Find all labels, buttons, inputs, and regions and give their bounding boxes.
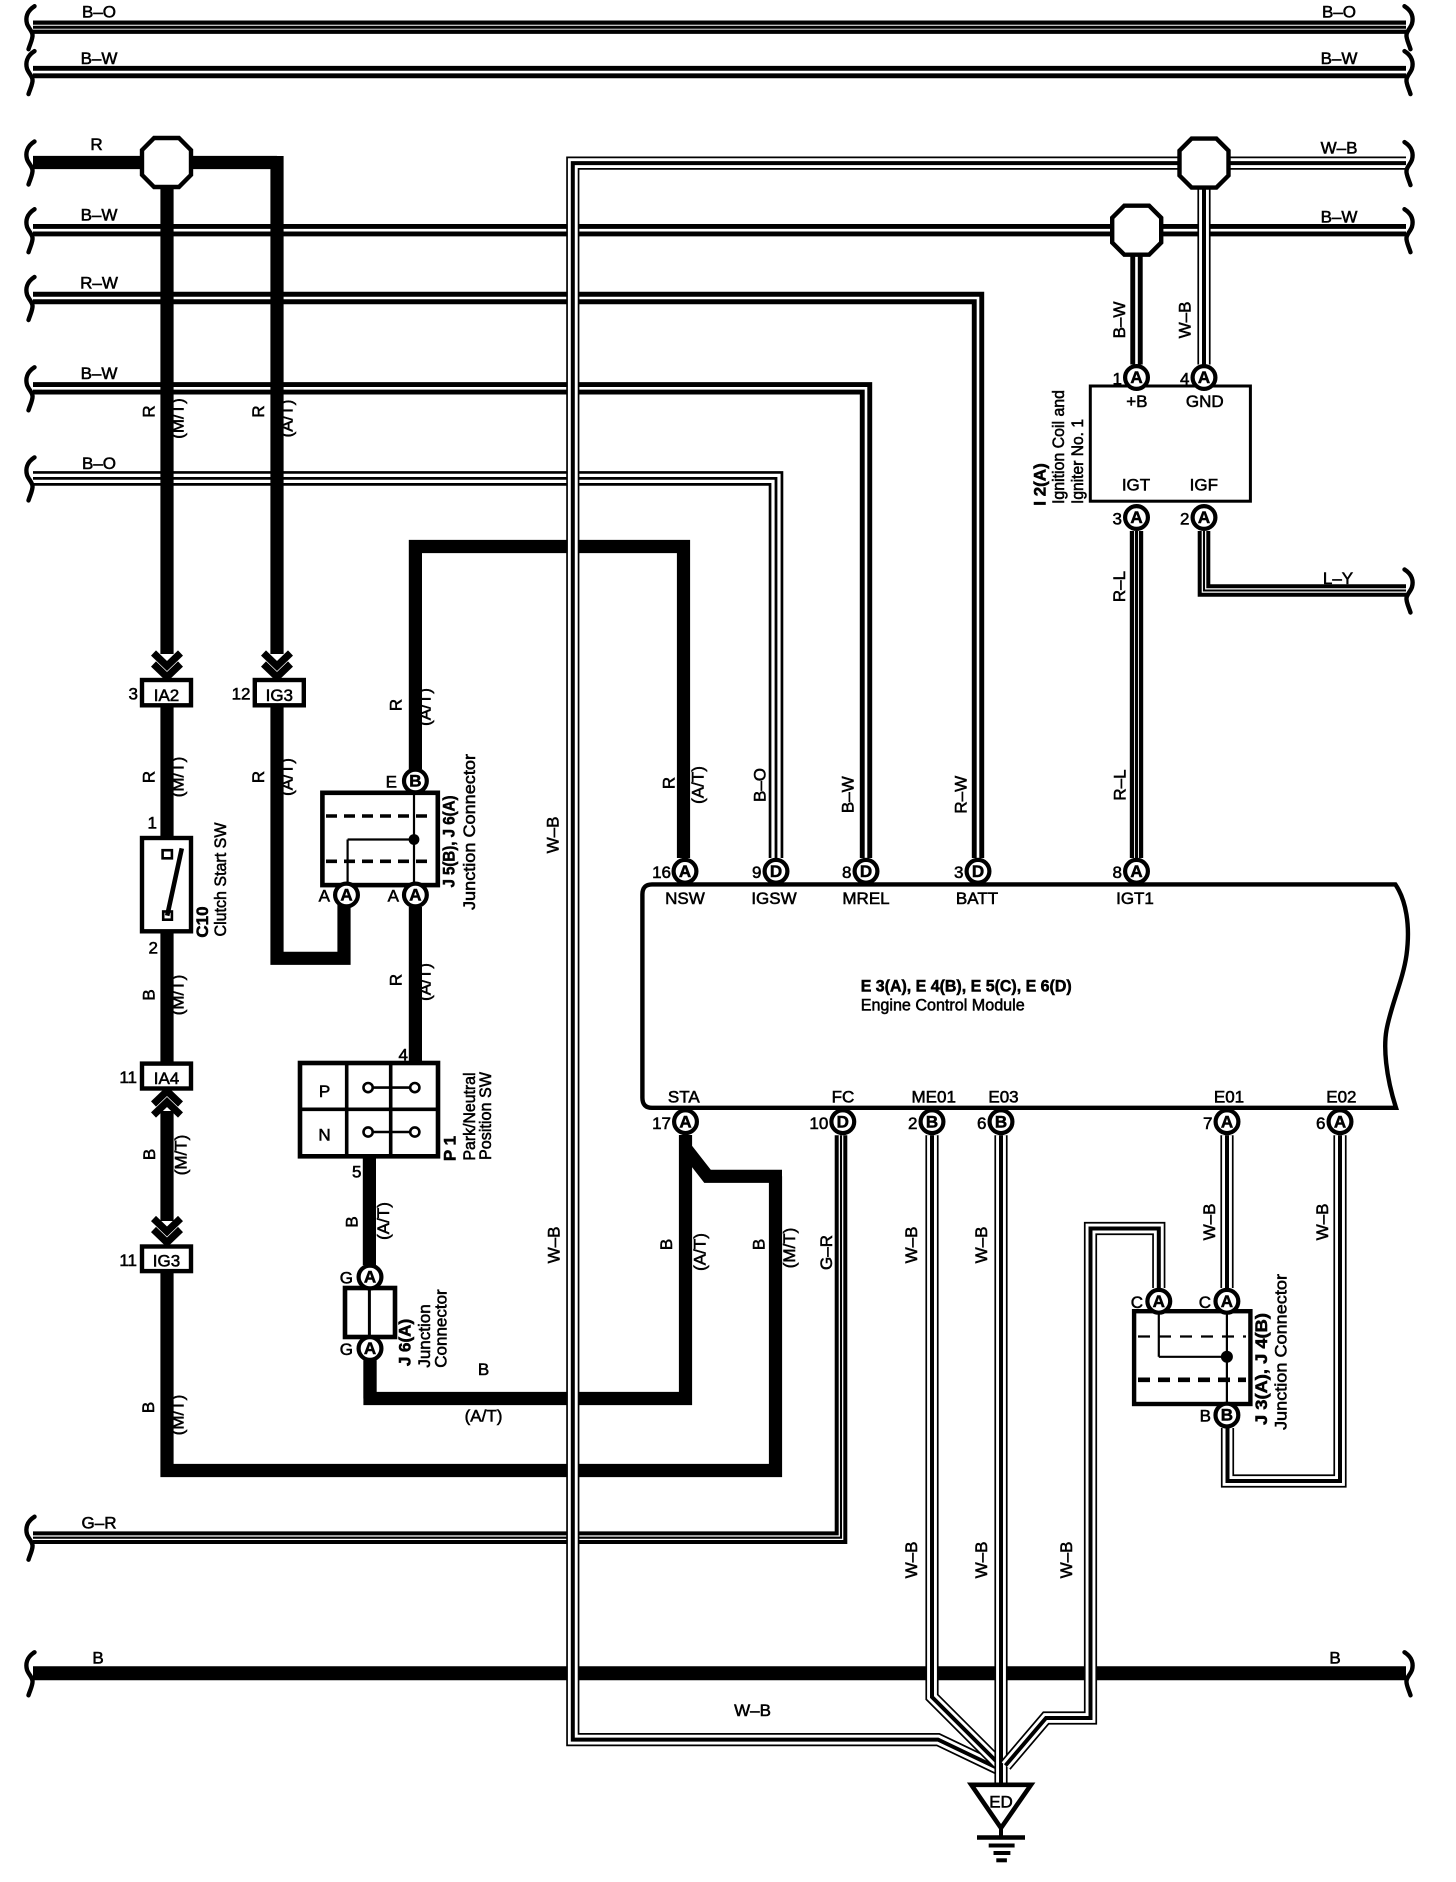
connector arrows into IG3 (lower, pointing down) — [154, 1219, 181, 1243]
wire R-L coil IGT pin 3 to ECM IGT1 — [1130, 531, 1143, 858]
svg-text:P: P — [319, 1082, 330, 1101]
svg-text:(M/T): (M/T) — [168, 975, 187, 1016]
svg-text:W–B: W–B — [902, 1227, 921, 1264]
svg-text:(A/T): (A/T) — [277, 758, 296, 796]
pin G(A) lower of J6 — [359, 1337, 382, 1360]
svg-text:A: A — [1221, 1292, 1233, 1311]
bus B-W (4th) with branch stub — [33, 224, 1406, 236]
svg-text:IA2: IA2 — [154, 686, 180, 705]
svg-text:A: A — [364, 1268, 376, 1287]
svg-text:B–O: B–O — [1322, 3, 1356, 22]
svg-text:(A/T): (A/T) — [415, 963, 434, 1001]
pin A(A) left of J6 — [335, 884, 358, 907]
svg-text:3: 3 — [954, 863, 963, 882]
node wire-continues brace left 8 — [26, 1517, 34, 1560]
svg-text:6: 6 — [977, 1114, 986, 1133]
node wire-continues brace right 5 — [1405, 570, 1413, 613]
svg-text:G–R: G–R — [817, 1235, 836, 1270]
wire B (A/T) J6 lower pin down — [363, 1361, 376, 1399]
bus B-O (top, to other page) — [33, 21, 1406, 34]
svg-text:4: 4 — [1180, 369, 1189, 388]
pin E(B) of J5 — [404, 770, 427, 793]
wire G-R bus to FC — [33, 1135, 841, 1538]
svg-text:A: A — [1334, 1112, 1346, 1131]
wire B (M/T) jog from STA — [687, 1150, 782, 1176]
svg-text:B: B — [409, 772, 421, 791]
node wire-continues brace left 3 — [26, 142, 34, 185]
svg-text:W–B: W–B — [972, 1227, 991, 1264]
bus B-W (2nd, to other page) — [33, 66, 1406, 78]
svg-text:(M/T): (M/T) — [171, 1135, 190, 1176]
junction connector J6(A) box — [345, 1288, 395, 1337]
wire R-W bus to BATT — [33, 298, 978, 858]
svg-text:W–B: W–B — [1321, 139, 1358, 158]
connector arrows into IA4 (pointing up) — [154, 1091, 181, 1115]
svg-text:B–W: B–W — [1110, 302, 1129, 339]
svg-text:R: R — [139, 405, 158, 417]
svg-text:B: B — [478, 1360, 489, 1379]
junction connector J5(B)/J6(A) box — [322, 793, 437, 885]
pin 10(D) FC — [831, 1110, 854, 1133]
svg-text:2: 2 — [1180, 509, 1189, 528]
pin C(A) left of J3 — [1147, 1290, 1170, 1313]
svg-text:(M/T): (M/T) — [168, 757, 187, 798]
svg-text:11: 11 — [119, 1068, 137, 1087]
svg-text:E03: E03 — [988, 1088, 1018, 1107]
pin 2(A) IGF — [1193, 506, 1216, 529]
svg-text:A: A — [1198, 368, 1210, 387]
bus B (ground, bottom) — [33, 1666, 1406, 1680]
svg-text:IG3: IG3 — [266, 686, 293, 705]
wire W-B E02 to J3/J4 pin B — [1228, 1135, 1341, 1481]
svg-text:A: A — [1130, 368, 1142, 387]
svg-text:B: B — [139, 989, 158, 1000]
svg-text:(A/T): (A/T) — [415, 688, 434, 726]
pin C(A) right of J3 — [1216, 1290, 1239, 1313]
svg-text:ED: ED — [989, 1793, 1013, 1812]
connector arrows into IA2 — [154, 653, 181, 677]
ground ED symbol — [971, 1785, 1031, 1861]
pin G(A) upper of J6 — [359, 1266, 382, 1289]
svg-text:3: 3 — [129, 685, 138, 704]
svg-text:8: 8 — [1113, 863, 1122, 882]
node wire-continues brace right 3 — [1405, 142, 1413, 185]
svg-text:W–B: W–B — [543, 817, 562, 854]
svg-text:R: R — [90, 135, 102, 154]
node wire-continues brace right 2 — [1405, 51, 1413, 94]
svg-text:R: R — [249, 771, 268, 783]
svg-text:GND: GND — [1186, 392, 1224, 411]
svg-text:Engine Control Module: Engine Control Module — [861, 995, 1025, 1014]
svg-text:Connector: Connector — [431, 1289, 450, 1368]
svg-text:(A/T): (A/T) — [374, 1202, 393, 1240]
node octagon splice on R feed — [142, 138, 191, 187]
svg-text:5: 5 — [352, 1163, 361, 1182]
wire R (A/T) J5 pin A to Park/Neutral pin 4 — [409, 907, 422, 1065]
svg-text:B: B — [342, 1216, 361, 1227]
pin 17(A) STA — [674, 1110, 697, 1133]
junction connector J3(A)/J4(B) box — [1134, 1311, 1250, 1404]
svg-text:E 3(A), E 4(B), E 5(C), E 6(D): E 3(A), E 4(B), E 5(C), E 6(D) — [861, 976, 1072, 995]
wire L-Y coil IGF pin 2 to right — [1204, 531, 1406, 591]
svg-text:R–W: R–W — [952, 776, 971, 814]
pin 3(D) BATT — [967, 860, 990, 883]
switch P1 Park/Neutral Position SW — [300, 1063, 438, 1156]
svg-text:J 6(A): J 6(A) — [395, 1319, 414, 1366]
svg-text:B–W: B–W — [1321, 49, 1358, 68]
svg-text:(A/T): (A/T) — [465, 1407, 503, 1426]
svg-text:B: B — [1221, 1406, 1233, 1425]
svg-text:Junction Connector: Junction Connector — [1271, 1274, 1290, 1430]
svg-text:IGF: IGF — [1190, 476, 1218, 495]
svg-text:B: B — [92, 1649, 103, 1668]
svg-text:B: B — [995, 1112, 1007, 1131]
svg-text:L–Y: L–Y — [1323, 569, 1353, 588]
svg-text:+B: +B — [1126, 392, 1147, 411]
node wire-continues brace right 4 — [1405, 209, 1413, 252]
svg-text:STA: STA — [668, 1088, 700, 1107]
svg-text:W–B: W–B — [544, 1227, 563, 1264]
svg-text:Junction Connector: Junction Connector — [460, 754, 479, 910]
svg-text:A: A — [409, 886, 421, 905]
svg-text:(A/T): (A/T) — [688, 766, 707, 804]
node wire-continues brace left 9 — [26, 1652, 34, 1695]
wire R (M/T) vertical segment 1 — [160, 156, 173, 654]
svg-text:A: A — [1221, 1112, 1233, 1131]
svg-text:B–W: B–W — [81, 206, 118, 225]
svg-text:(A/T): (A/T) — [277, 400, 296, 438]
connector IG3 pin 11 (lower) — [119, 1247, 191, 1272]
svg-text:16: 16 — [652, 863, 671, 882]
pin 6(A) E02 — [1329, 1110, 1352, 1133]
svg-text:E02: E02 — [1326, 1088, 1356, 1107]
svg-text:4: 4 — [399, 1045, 408, 1064]
connector arrows into IG3 (top) — [264, 653, 291, 677]
node wire-continues brace left 4 — [26, 209, 34, 252]
svg-text:2: 2 — [149, 938, 158, 957]
svg-text:W–B: W–B — [734, 1701, 771, 1720]
node wire-continues brace right 1 — [1405, 6, 1413, 49]
pin 8(A) IGT1 — [1125, 860, 1148, 883]
svg-text:W–B: W–B — [1313, 1204, 1332, 1241]
svg-text:B–W: B–W — [1321, 208, 1358, 227]
svg-text:J 5(B), J 6(A): J 5(B), J 6(A) — [439, 796, 458, 888]
svg-text:7: 7 — [1203, 1114, 1212, 1133]
svg-text:R: R — [139, 771, 158, 783]
svg-text:C: C — [1131, 1293, 1143, 1312]
svg-text:B: B — [926, 1112, 938, 1131]
pin 1(A) +B — [1125, 366, 1148, 389]
svg-text:IGT1: IGT1 — [1116, 889, 1154, 908]
svg-text:R: R — [249, 405, 268, 417]
svg-text:17: 17 — [652, 1114, 671, 1133]
svg-text:A: A — [340, 886, 352, 905]
svg-text:1: 1 — [148, 814, 157, 833]
svg-text:A: A — [1130, 508, 1142, 527]
svg-text:R: R — [659, 777, 678, 789]
svg-text:A: A — [1153, 1292, 1165, 1311]
svg-text:BATT: BATT — [956, 889, 998, 908]
node wire-continues brace left 2 — [26, 51, 34, 94]
svg-text:B: B — [1329, 1649, 1340, 1668]
wire W-B E01 to J3/J4 pin C — [1220, 1135, 1233, 1288]
node wire-continues brace left 6 — [26, 367, 34, 410]
svg-text:6: 6 — [1316, 1114, 1325, 1133]
svg-text:D: D — [860, 862, 872, 881]
svg-text:R: R — [386, 974, 405, 986]
svg-text:8: 8 — [842, 863, 851, 882]
svg-text:B: B — [749, 1239, 768, 1250]
wire R (A/T) below IG3 connector — [277, 705, 344, 958]
svg-text:B–O: B–O — [82, 454, 116, 473]
svg-text:3: 3 — [1113, 509, 1122, 528]
svg-text:A: A — [388, 887, 400, 906]
ECM E3(A)/E4(B)/E5(C)/E6(D) Engine Control Module box — [642, 884, 1408, 1107]
ignition coil and igniter I2(A) box — [1090, 386, 1250, 501]
svg-text:N: N — [318, 1126, 330, 1145]
svg-text:G–R: G–R — [82, 1514, 117, 1533]
svg-text:A: A — [1198, 508, 1210, 527]
pin 6(B) E03 — [990, 1110, 1013, 1133]
wire R (A/T) E(B) riser to NSW — [415, 547, 683, 859]
pin 2(B) ME01 — [921, 1110, 944, 1133]
svg-text:B: B — [140, 1149, 159, 1160]
node wire-continues brace right 6 — [1405, 1652, 1413, 1695]
svg-text:R–W: R–W — [80, 274, 118, 293]
pin 7(A) E01 — [1216, 1110, 1239, 1133]
node wire-continues brace left 7 — [26, 457, 34, 500]
svg-text:Igniter No. 1: Igniter No. 1 — [1068, 419, 1087, 504]
svg-text:10: 10 — [809, 1114, 828, 1133]
svg-text:A: A — [1130, 862, 1142, 881]
wire B (M/T) IA4-IG3 segment — [160, 1111, 173, 1221]
svg-text:B–O: B–O — [750, 768, 769, 802]
svg-text:IGT: IGT — [1122, 476, 1150, 495]
svg-text:J 3(A), J 4(B): J 3(A), J 4(B) — [1252, 1313, 1271, 1425]
svg-text:C10: C10 — [193, 906, 212, 937]
svg-text:(M/T): (M/T) — [168, 1395, 187, 1436]
svg-text:B: B — [1200, 1407, 1211, 1426]
svg-text:NSW: NSW — [665, 889, 705, 908]
svg-text:Clutch Start SW: Clutch Start SW — [211, 823, 230, 937]
svg-text:W–B: W–B — [1057, 1542, 1076, 1579]
wire W-B ME01 to ED — [932, 1135, 999, 1764]
wire W-B main ground run (right bus, long vertical, to ED) — [573, 163, 1406, 1769]
svg-text:Position SW: Position SW — [476, 1072, 495, 1160]
wire B (M/T) IG3 down to bottom run — [167, 1176, 776, 1470]
svg-text:B–W: B–W — [81, 49, 118, 68]
pin A(A) right of J6 — [404, 884, 427, 907]
svg-text:B–O: B–O — [82, 3, 116, 22]
svg-text:B–W: B–W — [81, 364, 118, 383]
svg-text:9: 9 — [752, 863, 761, 882]
wire R feed from left — [33, 156, 277, 169]
svg-text:E: E — [386, 773, 397, 792]
svg-text:11: 11 — [119, 1251, 137, 1270]
wire W-B octagon to coil GND pin 4 — [1197, 170, 1210, 365]
svg-text:D: D — [837, 1112, 849, 1131]
pin 9(D) IGSW — [765, 860, 788, 883]
svg-text:W–B: W–B — [1176, 302, 1195, 339]
svg-text:W–B: W–B — [902, 1542, 921, 1579]
svg-text:W–B: W–B — [1200, 1204, 1219, 1241]
wire B (A/T) STA down-left to junction — [370, 1135, 686, 1399]
svg-text:Ignition Coil and: Ignition Coil and — [1049, 390, 1068, 504]
svg-text:E01: E01 — [1214, 1088, 1244, 1107]
node wire-continues brace left 5 — [26, 277, 34, 320]
svg-text:(A/T): (A/T) — [690, 1233, 709, 1271]
svg-text:B: B — [657, 1239, 676, 1250]
svg-text:A: A — [679, 1112, 691, 1131]
svg-text:A: A — [319, 887, 331, 906]
svg-text:P 1: P 1 — [440, 1136, 459, 1161]
pin 4(A) GND — [1193, 366, 1216, 389]
svg-text:(M/T): (M/T) — [780, 1228, 799, 1269]
svg-text:1: 1 — [1113, 369, 1122, 388]
svg-text:A: A — [364, 1339, 376, 1358]
connector IG3 pin 12 — [232, 680, 304, 705]
svg-text:R: R — [386, 699, 405, 711]
switch C10 Clutch Start SW — [142, 838, 191, 931]
svg-text:G: G — [340, 1340, 353, 1359]
svg-text:FC: FC — [832, 1088, 855, 1107]
svg-text:W–B: W–B — [972, 1542, 991, 1579]
svg-text:G: G — [340, 1269, 353, 1288]
svg-text:2: 2 — [908, 1114, 917, 1133]
wire B (A/T) Park/Neutral pin 5 to J6 — [363, 1154, 376, 1265]
node wire-continues brace left 1 — [26, 6, 34, 49]
svg-text:R–L: R–L — [1110, 571, 1129, 602]
connector IA2 pin 3 — [129, 680, 191, 705]
wire B-O bus to IGSW — [33, 478, 776, 858]
wire B-W bus to MREL — [33, 388, 866, 858]
svg-text:IA4: IA4 — [154, 1069, 180, 1088]
wire R (A/T) vertical + hook to J5 pin A — [270, 156, 283, 654]
svg-text:12: 12 — [232, 685, 251, 704]
connector IA4 pin 11 — [119, 1064, 191, 1089]
wire B (M/T) clutch to IA4 — [160, 927, 173, 1065]
svg-text:A: A — [679, 862, 691, 881]
pin 3(A) IGT — [1125, 506, 1148, 529]
svg-text:(M/T): (M/T) — [168, 398, 187, 439]
pin B(B) of J4 — [1216, 1404, 1239, 1427]
svg-text:I 2(A): I 2(A) — [1030, 463, 1049, 506]
svg-text:B–W: B–W — [838, 776, 857, 813]
svg-text:D: D — [972, 862, 984, 881]
pin 8(D) MREL — [855, 860, 878, 883]
wire B-W octagon to coil +B pin 1 — [1130, 237, 1142, 365]
node octagon splice on W-B — [1180, 139, 1229, 188]
svg-text:D: D — [770, 862, 782, 881]
svg-text:B: B — [139, 1402, 158, 1413]
wire W-B J3/J4 pin C to ED — [1006, 1229, 1159, 1766]
svg-text:MREL: MREL — [842, 889, 889, 908]
wire W-B E03 straight to ED — [994, 1135, 1007, 1786]
pin 16(A) NSW — [674, 860, 697, 883]
svg-text:IG3: IG3 — [153, 1252, 180, 1271]
wire R (M/T) clutch feed — [160, 705, 173, 842]
svg-text:IGSW: IGSW — [751, 889, 796, 908]
node octagon splice on B-W — [1112, 206, 1161, 255]
svg-text:C: C — [1199, 1293, 1211, 1312]
svg-text:ME01: ME01 — [911, 1088, 955, 1107]
svg-text:R–L: R–L — [1110, 769, 1129, 800]
